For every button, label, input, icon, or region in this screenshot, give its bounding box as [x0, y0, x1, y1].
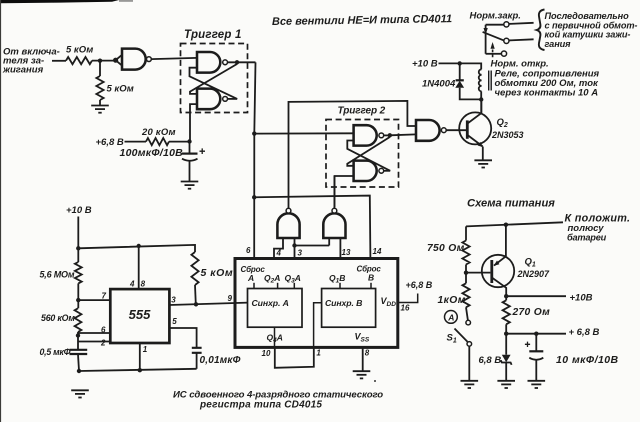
svg-text:VSS: VSS: [355, 332, 370, 344]
svg-text:4: 4: [129, 280, 135, 289]
wire rail to 750: [465, 226, 467, 240]
svg-text:В: В: [368, 272, 374, 282]
svg-text:+10В: +10В: [570, 293, 593, 304]
wire internal stub Q1B: [339, 283, 341, 289]
NAND gate U1c trigger1 bottom: [197, 89, 220, 110]
svg-text:Q2А: Q2А: [264, 273, 280, 285]
svg-text:560 кОм: 560 кОм: [41, 313, 75, 323]
svg-text:0,01мкФ: 0,01мкФ: [200, 355, 241, 366]
wire Q2 emitter to ground: [482, 147, 484, 161]
capacitor 0,01мкФ: [192, 348, 202, 353]
wire to 270: [505, 296, 507, 300]
wire Q4A internal: [274, 327, 276, 347]
contact common circle: [504, 38, 509, 43]
wire pulldown to ground: [99, 100, 101, 106]
svg-text:Норм.закр.: Норм.закр.: [470, 11, 521, 22]
wire internal stub Q3A: [293, 283, 295, 289]
svg-text:6,8 В: 6,8 В: [479, 355, 502, 366]
switch S1 bottom contact: [467, 342, 472, 347]
svg-text:5 кОм: 5 кОм: [66, 45, 93, 56]
wire pin3 to pin9: [169, 303, 248, 305]
diode 1N4004: [459, 63, 461, 80]
wire pin7: [78, 299, 110, 301]
node pin7 junction: [76, 298, 80, 302]
wire Q4A to pin1 loop: [275, 347, 314, 367]
transistor Q1 base bar: [490, 260, 493, 283]
wire trigger1 top output: [228, 61, 256, 63]
transistor Q2 base bar: [466, 120, 469, 138]
resistor 5,6 МОм: [75, 262, 82, 283]
wire +10V rail: [506, 295, 566, 297]
wire internal stub Q2A: [277, 283, 279, 289]
svg-text:Триггер 2: Триггер 2: [338, 106, 386, 117]
svg-text:14: 14: [373, 247, 382, 256]
svg-text:жигания: жигания: [2, 65, 44, 76]
wire trigger2 output to driver gate: [390, 133, 416, 136]
wire capacitor to ground: [189, 162, 191, 182]
svg-text:Все вентили НЕ=И типа CD4011: Все вентили НЕ=И типа CD4011: [272, 13, 452, 28]
node +6.8V rail: [504, 332, 508, 336]
NAND gate U2a trigger2 top: [354, 125, 377, 145]
svg-text:5: 5: [172, 317, 177, 326]
wire trigger1 output bus down: [254, 62, 255, 258]
wire bus to trigger2 S input: [254, 132, 353, 134]
svg-text:A: A: [447, 312, 454, 322]
resistor 750 Ом: [462, 241, 469, 265]
svg-text:регистра типа CD4015: регистра типа CD4015: [199, 399, 322, 410]
resistor 20 кОм: [146, 138, 169, 145]
node pins 4 8 takeoff: [137, 244, 141, 248]
node emitter rail: [504, 223, 508, 227]
wire node to coil top: [460, 63, 482, 69]
capacitor 10 мкФ: [535, 334, 537, 351]
svg-text:5 кОм: 5 кОм: [201, 267, 234, 279]
svg-text:1кОм: 1кОм: [438, 295, 466, 306]
switch S1 blade: [455, 329, 468, 342]
switch blade: [483, 32, 504, 41]
wire U3a output up and across: [289, 101, 417, 208]
wire common to brace: [509, 39, 534, 40]
wire trigger2 cross-couple diagonal: [347, 137, 390, 166]
wire pin5: [169, 328, 196, 348]
node input-tie dot: [113, 58, 118, 63]
svg-text:10: 10: [262, 349, 271, 358]
node bottom rail left: [77, 369, 81, 373]
wire resistor to node: [92, 60, 114, 62]
capacitor 0,5 мкФ: [70, 350, 88, 354]
wire VSS pin8 to ground: [362, 347, 364, 371]
wire contact left bar: [485, 25, 487, 54]
svg-text:+6,8 В: +6,8 В: [96, 137, 124, 148]
relay core bars: [489, 71, 492, 91]
transistor Q2 emitter: [467, 135, 482, 147]
svg-text:гания: гания: [545, 39, 572, 49]
svg-text:9: 9: [228, 294, 233, 303]
svg-text:13: 13: [342, 248, 351, 257]
NAND gate U1b trigger1 top: [197, 52, 220, 73]
wire node to capacitor: [189, 142, 191, 154]
wire NC left: [486, 24, 504, 26]
svg-text:+10 В: +10 В: [412, 59, 438, 70]
svg-text:10 мкФ/10В: 10 мкФ/10В: [556, 354, 619, 366]
svg-text:7: 7: [102, 291, 107, 300]
wire trigger2 reset input leg: [335, 176, 354, 207]
wire coil to collector node: [480, 91, 482, 99]
svg-text:16: 16: [401, 304, 410, 313]
node base junction: [464, 271, 468, 275]
node pin1 rail: [138, 368, 142, 372]
wire U3b left leg: [328, 238, 330, 246]
wire node down to R pulldown: [99, 61, 101, 76]
wire 750 to base node: [465, 265, 467, 273]
svg-text:2: 2: [100, 338, 106, 347]
svg-text:6: 6: [246, 246, 251, 255]
svg-text:2N3053: 2N3053: [491, 130, 524, 140]
ground under S1: [461, 381, 479, 388]
svg-text:+10 В: +10 В: [66, 205, 92, 216]
wire U3b output up to trigger2 R: [333, 176, 335, 208]
wire trigger2 bottom output stub: [384, 170, 391, 172]
wire +10V to diode node: [439, 62, 460, 64]
wire +6.8V rail: [506, 333, 566, 335]
wire internal stub resetA: [253, 283, 255, 289]
register A sub-box: [248, 289, 303, 328]
NAND gate U1a inverter: [122, 49, 146, 70]
blade arrow: [484, 28, 488, 35]
svg-text:270 Ом: 270 Ом: [512, 307, 551, 318]
wire node to Q2 collector: [480, 100, 482, 113]
wire battery rail: [466, 222, 563, 226]
wire U3a left leg to pin4: [274, 238, 283, 259]
node trigger2 output dot: [388, 133, 392, 137]
wire U1a output to trigger 1: [151, 58, 197, 59]
transistor Q1 circle: [482, 255, 514, 287]
resistor R 5k series: [66, 57, 92, 64]
wire trigger1 cross-couple diagonal: [190, 64, 237, 94]
node bus to reset line: [252, 195, 256, 199]
wire trigger2 cross-couple staple: [347, 141, 390, 171]
ground under Q2: [474, 160, 492, 167]
node collector junction: [479, 97, 483, 101]
resistor 270 Ом: [503, 300, 510, 324]
wire top rail to 5k: [78, 245, 195, 252]
transistor Q2 circle: [459, 112, 491, 144]
wire bus to pin14 reset B: [254, 196, 370, 259]
ammeter A: [445, 311, 458, 324]
svg-text:6: 6: [101, 325, 106, 334]
scan speck: [374, 380, 376, 382]
svg-text:Q1В: Q1В: [329, 273, 345, 285]
svg-text:+6,8 В: +6,8 В: [406, 280, 433, 290]
wire trigger1 bottom output stub: [228, 98, 238, 100]
node 555 top rail: [76, 246, 80, 250]
node R-input junction: [187, 139, 191, 143]
node pins 2 6 junction: [76, 333, 80, 337]
node decode tie dot: [292, 243, 296, 247]
node diode top: [458, 61, 462, 65]
trigger 1 dashed box: [181, 44, 248, 113]
svg-text:3: 3: [298, 249, 303, 258]
svg-text:0,5 мкФ: 0,5 мкФ: [40, 347, 71, 357]
trigger 2 dashed box: [326, 120, 399, 188]
contact NO circle: [501, 51, 506, 56]
svg-text:8: 8: [141, 280, 146, 289]
svg-text:8: 8: [365, 349, 370, 358]
ground under zener: [497, 381, 515, 388]
svg-text:4: 4: [276, 249, 282, 258]
svg-text:555: 555: [129, 307, 151, 322]
transistor Q2 collector: [467, 100, 481, 124]
wire 555 bottom rail: [79, 369, 197, 371]
NAND gate U3a decode left: [277, 213, 299, 238]
ground under pulldown: [91, 106, 109, 113]
mechanical link dashed: [492, 45, 494, 59]
wire 1k to switch: [466, 307, 468, 320]
wire pin2: [78, 341, 110, 343]
resistor 5 кОм timing: [191, 252, 198, 285]
NAND gate U3b decode right: [323, 213, 345, 238]
svg-text:Схема питания: Схема питания: [467, 198, 555, 210]
svg-text:750 Ом: 750 Ом: [427, 243, 465, 254]
svg-text:А: А: [247, 273, 254, 283]
wire 5.6M to 560k: [77, 283, 79, 308]
wire cap to bottom rail: [78, 354, 79, 371]
wire trigger1 reset input leg: [190, 104, 197, 141]
scan artifact left edge line: [0, 0, 1, 422]
relay coil K1: [479, 69, 482, 91]
svg-text:Q3А: Q3А: [285, 273, 301, 285]
wire pin6: [78, 332, 110, 334]
svg-text:Синхр. В: Синхр. В: [325, 298, 362, 308]
node junction at gate input: [98, 59, 102, 63]
svg-text:5,6 МОм: 5,6 МОм: [40, 270, 75, 280]
contact NC circle: [504, 22, 509, 27]
wire 270 to 6.8 node: [505, 324, 507, 333]
wire +6.8V to 20k: [125, 141, 147, 143]
svg-text:20 кОм: 20 кОм: [141, 127, 176, 138]
svg-text:1: 1: [143, 345, 148, 354]
wire U3b right leg to pin13: [339, 238, 341, 259]
svg-text:батареи: батареи: [567, 233, 607, 243]
wire NC to brace: [509, 23, 534, 24]
wire pin1 internal: [314, 303, 322, 348]
scan artifact top edge smear: [0, 0, 119, 3]
transistor Q1 emitter: [494, 256, 506, 265]
wire Q1 emitter up: [505, 225, 507, 257]
svg-text:S1: S1: [447, 333, 457, 345]
register B sub-box: [322, 289, 376, 328]
svg-text:100мкФ/10В: 100мкФ/10В: [120, 147, 184, 159]
svg-text:1N4004: 1N4004: [422, 79, 456, 90]
svg-text:Синхр. А: Синхр. А: [252, 298, 289, 308]
wire pin1 down: [139, 343, 141, 370]
wire internal stub resetB: [370, 283, 372, 289]
zener diode 6,8 В: [505, 334, 507, 355]
wire base: [466, 272, 490, 274]
svg-text:1: 1: [316, 349, 321, 358]
node +10V rail: [504, 294, 508, 298]
NAND gate U4 driver: [416, 120, 440, 141]
ground under VSS: [353, 371, 371, 378]
svg-text:VDD: VDD: [381, 296, 397, 308]
brace: [537, 10, 545, 51]
wire trigger1 cross-couple staple: [190, 68, 238, 99]
node bus to trigger2: [252, 131, 256, 135]
wire 5k down to pin3 line: [194, 285, 197, 304]
resistor R 5k pulldown: [96, 76, 103, 100]
switch S1 top contact: [466, 320, 471, 325]
NAND gate U2b trigger2 bottom: [354, 161, 377, 181]
wire 20k to node: [169, 141, 190, 143]
svg-text:через контакты 10 А: через контакты 10 А: [495, 88, 599, 99]
ground under cap: [528, 381, 546, 388]
svg-text:3: 3: [171, 295, 176, 304]
node trigger1 output dot: [235, 60, 239, 64]
capacitor 100мкФ/10В: [182, 153, 198, 155]
wire trigger2 top output: [384, 134, 390, 136]
svg-text:Q1: Q1: [525, 257, 536, 269]
wire NO left: [486, 53, 502, 55]
wire +10V rail down: [77, 217, 79, 263]
resistor 1кОм: [462, 283, 469, 307]
wire pins 4 8 line: [138, 246, 140, 289]
wire switch to ground: [468, 346, 470, 381]
ground under 100uF: [181, 182, 199, 189]
svg-text:Триггер 1: Триггер 1: [184, 29, 242, 41]
node pin3 5k junction: [194, 302, 198, 306]
svg-text:Q2: Q2: [497, 117, 508, 129]
IC CD4015 box: [235, 259, 398, 348]
transistor Q1 collector: [492, 278, 506, 297]
svg-text:5 кОм: 5 кОм: [107, 84, 134, 95]
wire pin16: [398, 294, 418, 303]
wire base node to 1k: [465, 273, 467, 284]
ground under 555 rail: [71, 390, 89, 397]
svg-text:+ 6,8 В: + 6,8 В: [569, 327, 600, 338]
wire from ignition switch: [52, 60, 66, 62]
wire decode tie: [295, 245, 330, 247]
IC 555 box: [110, 289, 169, 343]
svg-text:2N2907: 2N2907: [517, 269, 551, 279]
wire U3a right leg to pin3: [294, 238, 296, 259]
wire 560k to cap: [77, 332, 79, 350]
node cap takeoff: [534, 332, 538, 336]
resistor 560 кОм: [75, 308, 82, 332]
wire U4 output to Q2 base: [446, 129, 467, 131]
